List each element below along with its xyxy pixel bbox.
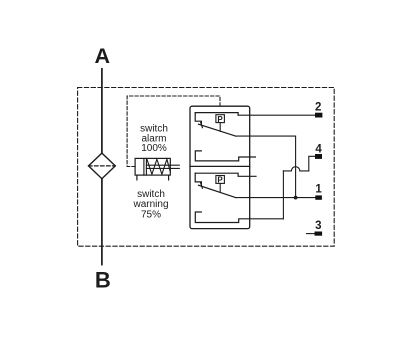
actuator box [135,158,170,175]
actuator piston [144,158,147,175]
pressure element P2 [216,176,225,184]
switch S1 fixed contact [195,113,201,125]
wire S2 bracket riser [282,171,284,219]
switch box outer [190,106,250,228]
pressure element P1 [216,115,225,123]
switch box divider [190,165,250,167]
wire to terminal 2 [238,114,315,116]
switch S1 NO bracket [195,151,255,161]
wire to terminal 4 [309,156,315,171]
switch S2 lever [199,185,236,197]
svg-text:B: B [95,267,111,292]
switch S1 lever [199,124,236,136]
wire to terminal 1 [236,197,315,199]
wire main line A [101,69,103,153]
svg-text:3: 3 [315,220,321,232]
terminal 3 stub [307,233,315,235]
terminal 4 [315,154,322,159]
filter F1 dashed element [89,165,116,167]
svg-text:P: P [217,176,223,185]
filter F1 [89,153,116,179]
switch S1 P-box connector [219,123,221,132]
terminal 1 [315,195,322,199]
switch S2 fixed contact [195,173,201,185]
svg-text:100%: 100% [141,143,167,154]
switch S1 top line [195,113,238,116]
svg-text:1: 1 [315,183,322,195]
actuator rod [146,165,179,168]
switch S2 top line [195,173,256,176]
switch S2 NO bracket [195,212,283,223]
actuator leg left [136,175,138,180]
svg-text:2: 2 [315,102,321,114]
text switch alarm 100% [140,124,168,155]
svg-text:4: 4 [315,144,322,156]
switch S2 P-box connector [219,183,221,192]
terminal 3 [315,232,323,236]
pilot line (dashed) [127,96,220,167]
actuator leg right [168,175,170,180]
switch S2 contact tick [201,183,203,188]
junction dot [294,196,298,200]
svg-text:P: P [217,115,223,124]
svg-text:A: A [95,44,111,68]
text switch warning 75% [132,189,168,220]
enclosure dashed border [78,88,335,247]
wire main line B [101,179,103,265]
switch S1 contact tick [201,122,203,127]
wire S1 lever to junction [236,136,296,198]
terminal 2 [315,113,322,118]
wire crossover hop [283,167,308,171]
svg-text:75%: 75% [141,209,161,220]
spring [147,159,170,174]
